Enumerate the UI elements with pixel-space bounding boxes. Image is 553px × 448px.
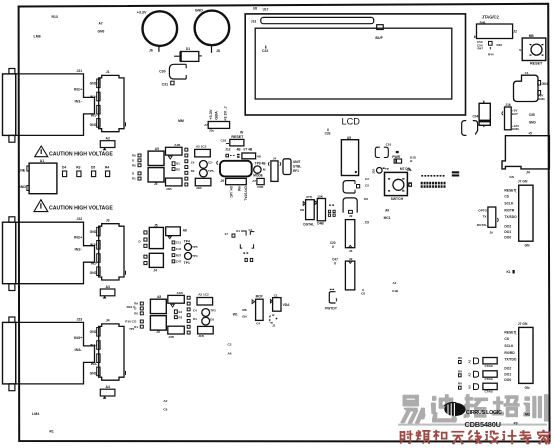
svg-text:J1: J1 xyxy=(106,70,110,74)
svg-text:OPTO: OPTO xyxy=(478,208,487,212)
svg-text:R3: R3 xyxy=(76,166,80,170)
svg-text:C2-: C2- xyxy=(208,161,213,165)
svg-text:IN3-: IN3- xyxy=(91,362,97,366)
svg-text:J4: J4 xyxy=(106,319,110,323)
svg-text:J4: J4 xyxy=(273,157,277,161)
svg-text:GND: GND xyxy=(512,127,520,131)
svg-text:J12: J12 xyxy=(225,148,231,152)
svg-text:UNIT: UNIT xyxy=(293,160,300,164)
svg-text:J9: J9 xyxy=(349,214,353,218)
svg-text:DO0: DO0 xyxy=(504,378,511,382)
label K1 xyxy=(507,270,515,274)
header J10 xyxy=(204,122,229,133)
svg-text:M2: M2 xyxy=(525,413,530,417)
power header J16 xyxy=(502,103,520,131)
svg-text:R4: R4 xyxy=(105,166,109,170)
svg-text:M7 DN-: M7 DN- xyxy=(400,167,411,171)
svg-text:K1: K1 xyxy=(507,270,511,274)
svg-text:LNE: LNE xyxy=(18,169,26,173)
svg-text:RESET: RESET xyxy=(231,135,244,139)
svg-text:GN1: GN1 xyxy=(542,82,549,86)
svg-text:VM: VM xyxy=(237,186,241,191)
svg-text:J7 GN: J7 GN xyxy=(518,322,528,326)
svg-text:J6: J6 xyxy=(349,249,353,253)
svg-text:GND: GND xyxy=(90,271,98,275)
svg-text:LCD: LCD xyxy=(342,117,361,127)
svg-text:JTAG/C2: JTAG/C2 xyxy=(482,15,500,20)
svg-text:A5: A5 xyxy=(157,295,161,299)
connector J4 (BNC IN3) xyxy=(3,317,126,399)
svg-text:P10 C: P10 C xyxy=(125,319,134,323)
svg-text:GN0: GN0 xyxy=(98,30,105,34)
LCD header slot J13 xyxy=(261,17,374,23)
svg-text:D9: D9 xyxy=(300,208,304,212)
serial header J7 xyxy=(504,180,533,248)
svg-text:I/T 4B: I/T 4B xyxy=(244,148,253,152)
svg-text:DO1: DO1 xyxy=(504,230,511,234)
svg-text:4B: 4B xyxy=(237,148,242,152)
svg-text:A4: A4 xyxy=(106,385,110,389)
power LED D18 xyxy=(392,151,416,171)
svg-text:C30: C30 xyxy=(159,69,165,73)
svg-text:J8: J8 xyxy=(216,49,220,53)
svg-text:TP5: TP5 xyxy=(192,245,198,249)
svg-text:C4: C4 xyxy=(256,321,260,325)
labels R10 C45 xyxy=(125,305,136,331)
optocoupler U10 xyxy=(477,207,498,235)
svg-text:DO0: DO0 xyxy=(504,236,511,240)
svg-text:A3: A3 xyxy=(106,285,110,289)
channel 3 input network xyxy=(134,291,216,339)
svg-text:A5: A5 xyxy=(155,147,159,151)
svg-text:C47: C47 xyxy=(332,257,338,261)
svg-text:C20: C20 xyxy=(330,241,336,245)
svg-text:25c: 25c xyxy=(209,128,214,132)
regulator U3 xyxy=(283,159,301,175)
diode D1 xyxy=(174,47,202,61)
svg-text:J2: J2 xyxy=(513,30,517,34)
capacitor C14 xyxy=(343,198,357,218)
label C47 xyxy=(332,257,338,264)
capacitor C31 xyxy=(162,81,174,86)
svg-text:CS: CS xyxy=(504,195,509,199)
svg-text:SCLK: SCLK xyxy=(504,344,514,348)
supervisor U12 xyxy=(325,289,338,311)
svg-text:J23: J23 xyxy=(77,317,83,321)
svg-text:GND: GND xyxy=(90,330,98,334)
capacitor C58 xyxy=(252,178,264,189)
labels J12 row xyxy=(225,148,253,152)
svg-text:MCP: MCP xyxy=(256,294,264,298)
svg-text:A5: A5 xyxy=(204,123,208,127)
backlight resistor DS1 xyxy=(377,25,384,30)
svg-text:R2: R2 xyxy=(176,168,180,172)
svg-text:VDA: VDA xyxy=(283,303,291,307)
svg-text:C04: C04 xyxy=(473,114,479,118)
svg-text:GN: GN xyxy=(525,244,531,248)
svg-text:R1: R1 xyxy=(134,325,138,329)
svg-text:SCLK: SCLK xyxy=(504,202,514,206)
svg-text:GBA: GBA xyxy=(214,111,219,120)
svg-text:R2: R2 xyxy=(179,316,183,320)
svg-text:A3: A3 xyxy=(468,385,472,389)
JTAG header J2 xyxy=(475,20,517,38)
connector J14 xyxy=(502,136,549,179)
capacitor C40 xyxy=(242,153,262,159)
reset button S1 xyxy=(519,34,546,66)
svg-text:D1: D1 xyxy=(186,47,190,51)
svg-text:C8: C8 xyxy=(163,408,167,412)
connector J3 (BNC IN2) xyxy=(3,217,126,299)
svg-text:CTAB: CTAB xyxy=(485,364,494,368)
warning triangle 1 xyxy=(35,146,48,157)
svg-text:D4: D4 xyxy=(62,166,66,170)
svg-text:IN3-: IN3- xyxy=(75,347,83,352)
Cirrus Logic logo xyxy=(444,403,502,417)
label C33 xyxy=(325,129,331,136)
label C8 xyxy=(361,289,365,295)
diode D13 xyxy=(300,195,314,227)
svg-text:U17: U17 xyxy=(263,7,269,11)
svg-text:B1: B1 xyxy=(179,310,183,314)
svg-text:A8: A8 xyxy=(183,229,187,233)
svg-text:C4B: C4B xyxy=(392,289,399,293)
test loop J8 (GND) xyxy=(195,9,230,53)
svg-text:A1B: A1B xyxy=(177,291,184,295)
svg-text:IN1-: IN1- xyxy=(91,113,97,117)
header dashes P2 xyxy=(407,168,460,188)
svg-text:LM4: LM4 xyxy=(32,412,39,416)
main IC U1 CS5480 xyxy=(217,161,252,177)
svg-text:. C9: . C9 xyxy=(363,220,369,224)
svg-text:C31: C31 xyxy=(162,82,168,86)
svg-text:GND: GND xyxy=(538,97,546,101)
svg-text:TP5-: TP5- xyxy=(208,169,215,173)
svg-text:B1: B1 xyxy=(176,162,180,166)
svg-text:R10 C: R10 C xyxy=(127,305,137,309)
svg-text:C11: C11 xyxy=(176,241,182,245)
IC U11 xyxy=(345,257,354,290)
svg-text:A7: A7 xyxy=(99,22,103,26)
svg-text:J1: J1 xyxy=(272,323,276,327)
svg-text:U5: U5 xyxy=(347,136,351,140)
svg-text:J1B: J1B xyxy=(198,334,204,338)
svg-text:A2: A2 xyxy=(468,373,472,377)
footprint J18 xyxy=(270,315,278,327)
svg-text:TP: TP xyxy=(385,167,389,171)
svg-text:R48: R48 xyxy=(480,20,486,24)
svg-text:R13: R13 xyxy=(52,15,58,19)
svg-text:C5B: C5B xyxy=(257,185,264,189)
label A7 xyxy=(98,22,105,34)
svg-text:MB: MB xyxy=(529,34,535,38)
svg-text:A7: A7 xyxy=(252,179,256,183)
svg-text:CIRRUS LOGIC: CIRRUS LOGIC xyxy=(466,410,502,416)
capacitor C30 xyxy=(159,64,186,79)
warning triangle 2 xyxy=(34,200,48,212)
svg-text:J4B: J4B xyxy=(168,335,174,339)
svg-text:DGTAL: DGTAL xyxy=(477,223,488,227)
svg-text:10K: 10K xyxy=(317,195,323,199)
svg-text:J13: J13 xyxy=(251,19,257,23)
svg-text:D5: D5 xyxy=(91,166,95,170)
labels J25 A6 xyxy=(228,343,232,356)
svg-text:R47: R47 xyxy=(478,47,484,51)
svg-text:J9: J9 xyxy=(221,179,225,183)
svg-text:BUF: BUF xyxy=(375,36,383,40)
svg-text:RV: RV xyxy=(458,356,462,360)
label A9 xyxy=(384,208,391,220)
svg-text:EXT: EXT xyxy=(512,112,518,116)
svg-text:GND: GND xyxy=(195,9,204,13)
svg-text:J4B: J4B xyxy=(166,187,172,191)
svg-text:SH_U/C: SH_U/C xyxy=(229,186,233,198)
svg-text:J9: J9 xyxy=(489,231,493,235)
svg-text:MODE: MODE xyxy=(253,173,263,177)
svg-text:GND: GND xyxy=(18,185,26,189)
svg-text:J5: J5 xyxy=(154,182,158,186)
svg-text:R46: R46 xyxy=(497,43,503,47)
svg-text:TP1: TP1 xyxy=(129,327,135,331)
serial header J8 xyxy=(504,322,533,390)
diode/resistor row D4 R3 D5 R4 xyxy=(62,166,110,177)
svg-text:RX/RD: RX/RD xyxy=(504,351,515,355)
svg-text:J20: J20 xyxy=(371,169,375,174)
svg-text:STBL: STBL xyxy=(293,165,301,169)
svg-text:C1: C1 xyxy=(274,293,278,297)
svg-text:DGTAL: DGTAL xyxy=(303,223,314,227)
svg-text:J22: J22 xyxy=(77,217,83,221)
svg-text:TP2: TP2 xyxy=(210,309,216,313)
svg-text:PWTDY: PWTDY xyxy=(325,306,338,310)
svg-text:LM6: LM6 xyxy=(34,35,41,39)
svg-text:C55: C55 xyxy=(529,113,535,117)
channel 1 input network xyxy=(132,143,215,191)
svg-text:CTAB: CTAB xyxy=(485,390,494,394)
svg-text:M: M xyxy=(263,168,266,172)
svg-text:IN3+: IN3+ xyxy=(74,335,83,340)
LCD display window xyxy=(255,28,452,99)
svg-text:GND: GND xyxy=(90,371,98,375)
IC U5 xyxy=(341,136,358,176)
svg-text:R1: R1 xyxy=(49,430,53,434)
svg-text:GND: GND xyxy=(90,230,98,234)
jumper D-B xyxy=(226,154,240,158)
svg-text:SWTCH: SWTCH xyxy=(391,197,404,201)
svg-text:DO1: DO1 xyxy=(504,372,511,376)
svg-text:W1: W1 xyxy=(233,313,238,317)
svg-text:+5: +5 xyxy=(528,132,532,136)
svg-text:D5: D5 xyxy=(210,317,214,321)
svg-text:D: D xyxy=(132,159,134,163)
LCD module U17 outline xyxy=(245,14,465,115)
svg-text:MC1: MC1 xyxy=(384,216,391,220)
svg-text:C22: C22 xyxy=(262,49,268,53)
regulator VDA xyxy=(270,293,290,311)
svg-text:A9: A9 xyxy=(385,208,389,212)
svg-text:RV: RV xyxy=(458,369,462,373)
svg-text:J5: J5 xyxy=(156,330,160,334)
test point TP10 xyxy=(371,167,389,174)
svg-text:C47: C47 xyxy=(176,260,182,264)
svg-text:RESET[: RESET[ xyxy=(504,189,517,193)
red watermark text xyxy=(400,430,550,445)
labels A7 C8 xyxy=(163,399,167,412)
svg-text:D1: D1 xyxy=(236,229,240,233)
svg-text:C44: C44 xyxy=(176,247,182,251)
svg-text:GND: GND xyxy=(90,82,98,86)
IC U9 xyxy=(345,220,354,253)
footprint brackets C10 xyxy=(375,143,391,158)
svg-text:CDB5480U: CDB5480U xyxy=(465,420,502,429)
resistor R24 xyxy=(230,139,244,146)
svg-text:P9: P9 xyxy=(514,421,518,425)
relay drivers K2 K3 K4 xyxy=(458,356,497,394)
svg-text:J4: J4 xyxy=(153,269,157,273)
svg-text:J3: J3 xyxy=(106,219,110,223)
svg-text:IN1+: IN1+ xyxy=(90,95,97,99)
svg-text:J6: J6 xyxy=(149,48,153,52)
voltage reference U13 xyxy=(242,294,263,325)
svg-text:IN2+: IN2+ xyxy=(74,235,83,240)
capacitor C18 xyxy=(221,138,230,143)
svg-text:C4: C4 xyxy=(193,309,197,313)
transformer footprint T1 (DNP) xyxy=(225,228,255,262)
svg-text:GND: GND xyxy=(529,121,537,125)
svg-text:A6: A6 xyxy=(228,352,232,356)
svg-text:R44: R44 xyxy=(488,52,494,56)
svg-text:D: D xyxy=(139,240,141,244)
svg-text:C2: C2 xyxy=(228,343,232,347)
capacitor C22 xyxy=(262,46,268,53)
svg-text:D2: D2 xyxy=(364,197,368,201)
svg-text:EF1: EF1 xyxy=(293,169,299,173)
svg-text:MM: MM xyxy=(178,119,184,123)
svg-text:S1: S1 xyxy=(519,48,523,52)
labels left of switch xyxy=(364,177,411,201)
svg-text:J7 GN: J7 GN xyxy=(518,180,528,184)
svg-text:J9: J9 xyxy=(349,257,353,261)
diode D14 xyxy=(315,195,326,226)
svg-text:CS: CS xyxy=(504,337,509,341)
svg-text:C2: C2 xyxy=(365,177,369,181)
svg-text:J5: J5 xyxy=(154,223,158,227)
labels C55 GND +5V xyxy=(528,113,536,136)
svg-text:A1: A1 xyxy=(40,159,44,163)
svg-text:U8: U8 xyxy=(253,7,257,11)
svg-text:R0: R0 xyxy=(134,312,138,316)
svg-text:C10: C10 xyxy=(386,143,392,147)
svg-text:47: 47 xyxy=(225,232,229,236)
svg-text:+3.3V_J: +3.3V_J xyxy=(222,106,227,121)
svg-text:A2: A2 xyxy=(163,399,167,403)
svg-text:R1: R1 xyxy=(132,177,136,181)
svg-text:A1B: A1B xyxy=(174,143,181,147)
connector J1 (BNC IN1) xyxy=(3,69,126,151)
svg-text:TP8 4B: TP8 4B xyxy=(255,161,267,165)
capacitor C35 xyxy=(462,121,478,136)
svg-text:R4: R4 xyxy=(193,317,197,321)
channel 2 input network xyxy=(139,223,198,272)
svg-text:IN3+: IN3+ xyxy=(90,343,97,347)
svg-text:J4: J4 xyxy=(526,171,530,175)
svg-text:D: D xyxy=(134,320,136,324)
test loop J6 (+3.3V) xyxy=(137,10,177,52)
svg-text:TP1: TP1 xyxy=(184,261,190,265)
svg-text:CRYSTAL: CRYSTAL xyxy=(243,186,247,201)
svg-text:TP4: TP4 xyxy=(192,254,198,258)
svg-text:DO2: DO2 xyxy=(504,367,511,371)
svg-text:C8: C8 xyxy=(361,291,365,295)
svg-text:RV: RV xyxy=(458,382,462,386)
svg-text:A2 1C2: A2 1C2 xyxy=(196,145,207,149)
svg-text:+3.3V: +3.3V xyxy=(208,109,213,120)
svg-text:+3.3V: +3.3V xyxy=(137,10,147,14)
svg-text:R0: R0 xyxy=(132,163,136,167)
label C20 xyxy=(330,241,336,248)
svg-text:TX/TDO: TX/TDO xyxy=(504,357,517,361)
svg-text:CAUTION HIGH VOLTAGE: CAUTION HIGH VOLTAGE xyxy=(49,205,113,211)
svg-text:RESET: RESET xyxy=(530,62,543,66)
svg-text:A2: A2 xyxy=(106,137,110,141)
switch S2 xyxy=(385,172,408,201)
svg-text:RX/TR: RX/TR xyxy=(504,209,515,213)
svg-text:R57: R57 xyxy=(176,253,182,257)
svg-text:R9: R9 xyxy=(132,154,136,158)
svg-text:CAUTION HIGH VOLTAGE: CAUTION HIGH VOLTAGE xyxy=(49,151,113,157)
power jack P1 xyxy=(514,71,549,102)
svg-text:TX/SDO: TX/SDO xyxy=(504,215,517,219)
regulator U6 xyxy=(268,157,281,182)
svg-text:J16: J16 xyxy=(505,103,511,107)
label MODE xyxy=(253,168,266,178)
svg-text:C18: C18 xyxy=(221,138,227,142)
svg-text:RESET[: RESET[ xyxy=(504,331,517,335)
capacitor C41 xyxy=(473,101,491,127)
watermark band xyxy=(398,395,548,426)
svg-text:D4B: D4B xyxy=(317,222,324,226)
crystal Y1 xyxy=(226,178,247,184)
svg-text:M8: M8 xyxy=(242,308,246,312)
labels A2 C4B xyxy=(392,281,399,293)
svg-text:GND: GND xyxy=(90,123,98,127)
connector J17 LINE xyxy=(18,159,57,194)
svg-text:C4: C4 xyxy=(191,161,195,165)
caps C53 C54 R47 R44 R46 xyxy=(477,40,502,56)
svg-text:C1: C1 xyxy=(525,71,529,75)
svg-text:C5: C5 xyxy=(365,183,369,187)
svg-text:A2 1C2: A2 1C2 xyxy=(198,293,209,297)
svg-text:A2: A2 xyxy=(393,281,397,285)
svg-text:(PT): (PT) xyxy=(306,195,312,199)
capacitor C13 xyxy=(343,181,360,193)
svg-text:IN1+: IN1+ xyxy=(74,86,83,91)
svg-text:CTAB: CTAB xyxy=(485,377,494,381)
svg-text:IN1-: IN1- xyxy=(75,98,83,103)
jumper dashes xyxy=(328,205,335,217)
svg-text:J1B: J1B xyxy=(196,186,202,190)
svg-text:IN2-: IN2- xyxy=(75,247,83,252)
svg-text:DO2: DO2 xyxy=(504,225,511,229)
svg-text:D: D xyxy=(132,172,134,176)
svg-text:GN: GN xyxy=(242,314,247,318)
svg-text:GN: GN xyxy=(525,386,531,390)
svg-text:A1: A1 xyxy=(468,359,472,363)
svg-text:IN2+: IN2+ xyxy=(90,243,97,247)
rotated labels +3.3V GND xyxy=(178,106,227,123)
svg-text:J21: J21 xyxy=(77,69,83,73)
svg-text:IN2-: IN2- xyxy=(91,262,97,266)
